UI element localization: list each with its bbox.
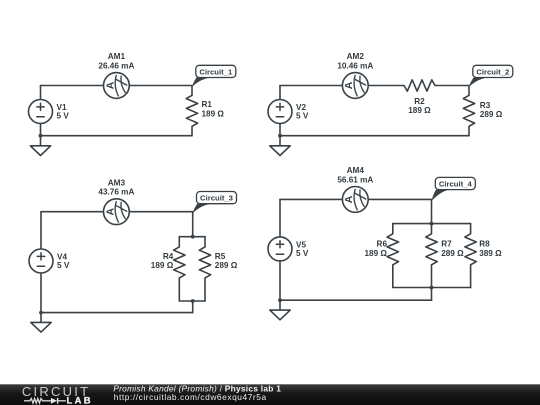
svg-text:Circuit_1: Circuit_1 <box>199 68 233 77</box>
svg-text:189 Ω: 189 Ω <box>365 249 388 258</box>
svg-text:AM1: AM1 <box>108 52 126 61</box>
svg-text:5 V: 5 V <box>296 249 309 258</box>
svg-text:Circuit_4: Circuit_4 <box>439 180 473 189</box>
svg-text:289 Ω: 289 Ω <box>215 261 238 270</box>
svg-text:R1: R1 <box>202 100 213 109</box>
svg-text:R6: R6 <box>377 240 388 249</box>
svg-text:http://circuitlab.com/cdw6exqu: http://circuitlab.com/cdw6exqu47r5a <box>114 392 267 402</box>
svg-text:Circuit_3: Circuit_3 <box>200 194 233 203</box>
svg-text:R5: R5 <box>215 252 226 261</box>
svg-text:43.76 mA: 43.76 mA <box>98 188 134 197</box>
svg-text:289 Ω: 289 Ω <box>441 249 464 258</box>
svg-text:10.46 mA: 10.46 mA <box>337 62 373 71</box>
svg-text:5 V: 5 V <box>57 112 70 121</box>
svg-text:AM3: AM3 <box>108 178 126 187</box>
svg-text:289 Ω: 289 Ω <box>480 110 503 119</box>
svg-text:AM4: AM4 <box>347 166 365 175</box>
svg-text:389 Ω: 389 Ω <box>479 249 502 258</box>
svg-text:Circuit_2: Circuit_2 <box>476 68 509 77</box>
svg-text:R7: R7 <box>441 240 452 249</box>
svg-text:R4: R4 <box>163 252 174 261</box>
svg-text:LAB: LAB <box>67 394 93 405</box>
svg-text:189 Ω: 189 Ω <box>151 261 174 270</box>
svg-text:R3: R3 <box>480 101 491 110</box>
svg-text:AM2: AM2 <box>347 52 365 61</box>
svg-text:R2: R2 <box>414 97 425 106</box>
svg-text:R8: R8 <box>479 240 490 249</box>
svg-text:56.61 mA: 56.61 mA <box>337 175 373 184</box>
svg-text:189 Ω: 189 Ω <box>202 109 225 118</box>
svg-text:5 V: 5 V <box>296 112 309 121</box>
svg-text:26.46 mA: 26.46 mA <box>98 62 134 71</box>
svg-text:5 V: 5 V <box>57 261 70 270</box>
svg-text:189 Ω: 189 Ω <box>408 106 431 115</box>
